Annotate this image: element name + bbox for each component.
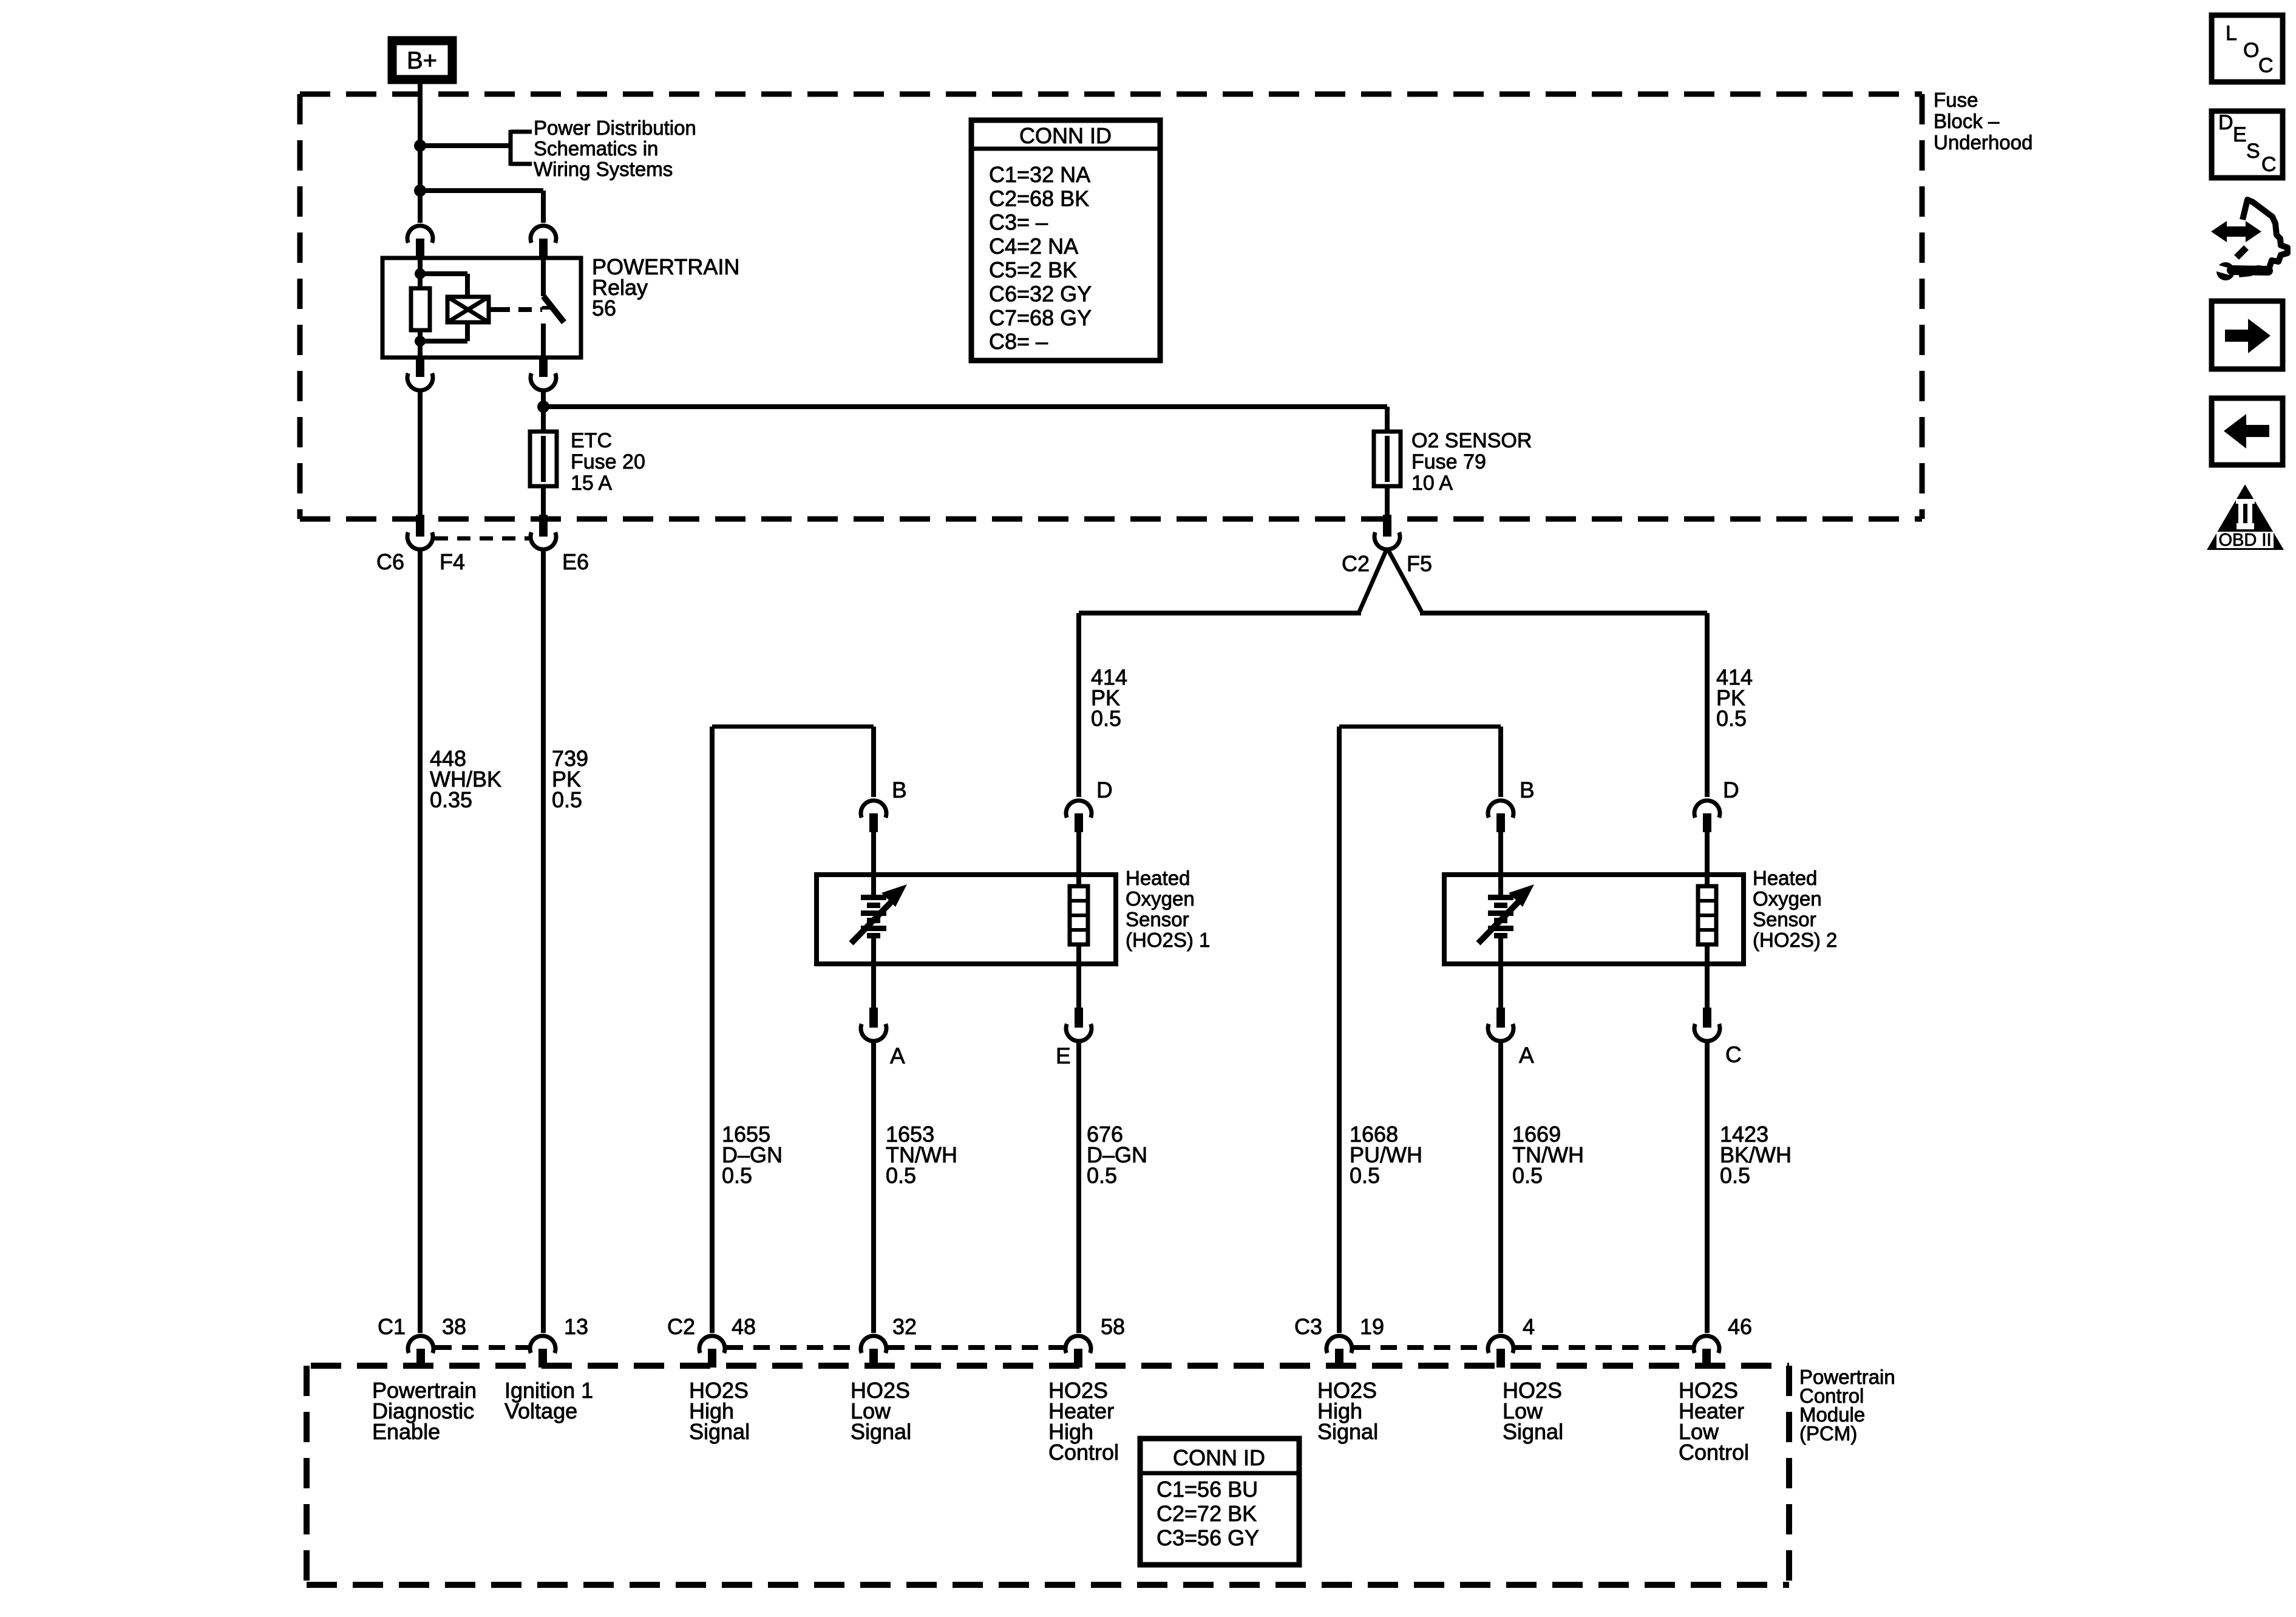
wire Y split left diagonal [1359,548,1387,613]
coil relay winding box [447,297,489,322]
svg-text:E: E [2233,123,2247,146]
connector PCM pin at x=1173 [699,1336,725,1353]
svg-text:Signal: Signal [1503,1419,1563,1444]
svg-text:Control: Control [1048,1440,1119,1465]
svg-text:Fuse: Fuse [1934,89,1978,111]
wire down to O2 fuse [1385,407,1390,433]
connector HO2S1 pin B [861,801,886,818]
battery sensing element HO2S1 [871,875,876,897]
connector HO2S1 pin D [1066,801,1092,818]
svg-text:(HO2S) 2: (HO2S) 2 [1753,929,1837,951]
connector HO2S1 pin E [1076,964,1081,1009]
wire relay to junction [541,389,546,407]
fuse O2 SENSOR Fuse 79 10A [1374,432,1401,486]
connector PCM pin at x=2472 [1488,1336,1513,1353]
svg-text:Signal: Signal [689,1419,750,1444]
connector PCM pin at x=1439 [861,1336,886,1353]
svg-text:A: A [1519,1043,1534,1068]
svg-text:13: 13 [564,1314,588,1339]
dashed connector link PCM C2b [888,1345,1064,1350]
connector HO2S2 pin D [1694,801,1720,818]
svg-text:15 A: 15 A [571,472,612,495]
icon schematic head outline [2239,200,2288,274]
icon back arrow box [2212,398,2283,465]
svg-text:46: 46 [1728,1314,1752,1339]
dashed connector link PCM C3b [1515,1345,1692,1350]
svg-text:C8= –: C8= – [989,329,1048,354]
svg-text:F4: F4 [440,549,465,574]
wire coil branch top [420,271,467,276]
wire coil branch bottom [465,322,470,341]
svg-text:38: 38 [442,1314,466,1339]
wire coil actuator stub [489,307,497,312]
box Heated Oxygen Sensor HO2S 2 [1444,875,1744,964]
svg-text:19: 19 [1360,1314,1384,1339]
wire B+ down to relay [418,80,423,223]
svg-text:C2: C2 [1342,551,1370,576]
svg-text:Oxygen: Oxygen [1126,887,1195,910]
svg-text:F5: F5 [1407,551,1432,576]
svg-text:B: B [892,778,907,802]
powertrain control module dashed box [311,1363,1789,1369]
svg-text:A: A [890,1043,905,1068]
wire ETC fuse to boundary [541,486,546,517]
svg-text:0.5: 0.5 [552,787,582,812]
svg-text:C2=68 BK: C2=68 BK [989,186,1089,211]
connector HO2S2 pin B [1488,801,1513,818]
wire 448 to PCM pin 38 [418,548,423,1333]
svg-text:Signal: Signal [1317,1419,1378,1444]
svg-text:0.5: 0.5 [1512,1163,1543,1188]
svg-text:C1: C1 [378,1314,406,1339]
junction dot feed split [537,401,549,413]
svg-text:C3=56 GY: C3=56 GY [1156,1525,1259,1550]
svg-text:B: B [1520,778,1535,802]
connector relay pin top-left [407,226,433,243]
svg-text:C3= –: C3= – [989,210,1048,235]
svg-text:0.5: 0.5 [886,1163,916,1188]
svg-text:Block –: Block – [1934,110,2000,132]
svg-text:(PCM): (PCM) [1799,1422,1857,1445]
svg-text:Schematics in: Schematics in [534,137,658,160]
svg-text:D: D [1096,778,1113,802]
svg-text:C6: C6 [376,549,404,574]
svg-text:C5=2 BK: C5=2 BK [989,257,1077,282]
svg-text:Control: Control [1679,1440,1749,1465]
svg-text:CONN ID: CONN ID [1173,1445,1265,1470]
svg-text:C1=32 NA: C1=32 NA [989,162,1090,187]
connector HO2S2 pin A [1498,964,1503,1009]
svg-text:C6=32 GY: C6=32 GY [989,282,1092,307]
wire feed to O2 sensor fuse [543,404,1387,409]
resistor relay internal [411,288,430,330]
svg-text:Underhood: Underhood [1934,131,2033,154]
svg-text:E6: E6 [562,549,589,574]
fuse block - underhood dashed box [300,92,1922,97]
svg-text:(HO2S) 1: (HO2S) 1 [1126,929,1210,951]
table CONN ID fuse block [971,120,1160,361]
icon forward arrow box [2212,301,2283,369]
dashed connector link PCM C2a [727,1345,859,1350]
wire 414 feed left [1079,611,1361,615]
connector PCM pin at x=2811 [1694,1336,1719,1353]
fuse ETC Fuse 20 15A [530,432,557,486]
wire resistor bottom [418,328,423,358]
svg-text:48: 48 [732,1314,756,1339]
wire relay coil left [418,258,423,290]
dashed connector link C6-E6 [435,537,529,541]
dashed actuator link [497,307,542,312]
connector C6 F4 pin [416,515,424,537]
dashed connector link PCM C3a [1354,1345,1486,1350]
wire HO2S1 high signal jog [712,725,874,729]
svg-text:Voltage: Voltage [504,1398,577,1423]
svg-text:CONN ID: CONN ID [1019,123,1112,148]
svg-text:L: L [2226,22,2237,45]
svg-text:58: 58 [1101,1314,1125,1339]
icon wrench [2216,262,2235,280]
svg-text:Fuse 20: Fuse 20 [571,450,645,473]
svg-text:Enable: Enable [372,1419,440,1444]
heater element HO2S2 [1705,875,1710,889]
junction dot coil top [415,268,426,279]
dashed connector link PCM C1 [435,1345,528,1350]
svg-text:C4=2 NA: C4=2 NA [989,234,1078,259]
wire down to ETC fuse [541,407,546,433]
connector PCM pin at x=2206 [1326,1336,1352,1353]
connector C2 F5 pin [1383,515,1391,537]
wire 739 to PCM pin 13 [541,548,546,1333]
svg-text:C3: C3 [1294,1314,1322,1339]
wire tap to relay switch [420,188,543,193]
icon OBD II triangle [2207,484,2284,550]
svg-text:0.5: 0.5 [1716,706,1747,731]
svg-text:Heated: Heated [1126,867,1190,889]
svg-text:D: D [2218,111,2233,134]
connector PCM pin at x=894 [530,1336,555,1353]
connector relay pin bottom-right [539,357,548,377]
connector HO2S1 pin A [871,964,876,1009]
svg-text:C: C [2258,54,2274,77]
svg-text:4: 4 [1523,1314,1535,1339]
icon LOC box [2212,15,2283,82]
svg-text:C2: C2 [667,1314,695,1339]
svg-text:0.5: 0.5 [1091,706,1121,731]
icon forward arrow [2225,330,2248,342]
wire switch top [541,258,546,296]
relay box POWERTRAIN Relay 56 [382,258,581,358]
node B+ battery feed box [392,41,452,80]
svg-text:32: 32 [892,1314,917,1339]
svg-text:Fuse 79: Fuse 79 [1411,450,1486,473]
svg-text:0.5: 0.5 [722,1163,752,1188]
battery sensing element HO2S2 [1498,875,1503,897]
junction dot relay coil tap [414,185,426,197]
heater element HO2S1 [1076,875,1081,889]
svg-text:C: C [1725,1042,1742,1067]
icon back arrow [2246,425,2269,437]
svg-text:Signal: Signal [851,1419,911,1444]
svg-text:0.35: 0.35 [430,787,472,812]
connector relay pin bottom-left [416,357,424,377]
svg-text:Sensor: Sensor [1126,908,1189,931]
svg-text:C2=72 BK: C2=72 BK [1156,1501,1257,1526]
wire HO2S2 high signal jog [1339,725,1501,729]
svg-text:D: D [1723,778,1739,802]
connector PCM pin at x=693 [408,1336,433,1353]
svg-text:Sensor: Sensor [1753,908,1816,931]
svg-text:56: 56 [592,296,616,320]
svg-text:Wiring Systems: Wiring Systems [534,158,673,180]
connector E6 pin [539,515,548,537]
svg-text:C1=56 BU: C1=56 BU [1156,1477,1258,1502]
svg-text:Heated: Heated [1753,867,1817,889]
connector relay pin top-right [531,226,556,243]
svg-text:Oxygen: Oxygen [1753,887,1822,910]
svg-text:0.5: 0.5 [1720,1163,1750,1188]
svg-text:0.5: 0.5 [1350,1163,1380,1188]
wire Y split right diagonal [1387,548,1422,613]
svg-text:S: S [2246,140,2260,163]
table CONN ID PCM [1140,1439,1299,1565]
icon schematic double arrow [2221,226,2250,237]
connector PCM pin at x=1776 [1065,1336,1091,1353]
switch relay blade [543,296,564,322]
svg-text:O: O [2243,39,2259,62]
svg-text:Power Distribution: Power Distribution [534,117,696,139]
switch relay fixed tick [542,306,553,310]
svg-text:ETC: ETC [571,429,612,452]
svg-text:B+: B+ [407,47,437,74]
svg-text:OBD II: OBD II [2218,531,2271,550]
wire 414 feed right [1420,611,1707,615]
wire switch bottom [541,324,546,358]
svg-text:E: E [1056,1043,1071,1068]
svg-text:C: C [2261,153,2277,176]
wire relay to C6 connector [418,389,423,517]
svg-text:0.5: 0.5 [1087,1163,1117,1188]
connector HO2S2 pin C [1705,964,1710,1009]
icon DESC box [2212,111,2283,178]
svg-text:C7=68 GY: C7=68 GY [989,305,1092,330]
wire O2 fuse to boundary [1385,486,1390,517]
box Heated Oxygen Sensor HO2S 1 [817,875,1116,964]
wire tap to power distribution bracket [420,143,511,148]
junction dot power distribution tap [414,140,426,152]
svg-text:O2 SENSOR: O2 SENSOR [1411,429,1532,452]
junction dot coil bottom [415,336,426,347]
bracket power distribution [509,130,513,166]
svg-text:10 A: 10 A [1411,472,1453,495]
